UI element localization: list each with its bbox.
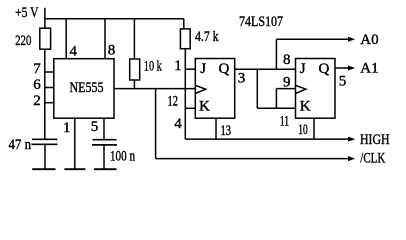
svg-text:10: 10 — [298, 122, 308, 138]
svg-text:74LS107: 74LS107 — [239, 14, 283, 30]
capacitor C1 47n — [32, 139, 58, 144]
wire J1 stub — [185, 68, 195, 70]
svg-text:4: 4 — [70, 43, 78, 59]
arrowhead HIGH — [348, 137, 355, 142]
svg-text:A0: A0 — [360, 32, 378, 48]
svg-text:K: K — [199, 98, 210, 114]
wire Q1 to J2 — [235, 68, 296, 70]
svg-text:1: 1 — [63, 120, 71, 136]
svg-text:1: 1 — [174, 58, 182, 74]
arrowhead A1 — [348, 66, 355, 71]
svg-text:3: 3 — [238, 70, 246, 86]
svg-text:13: 13 — [221, 123, 232, 139]
arrowhead A0 — [348, 37, 355, 42]
wire clock2 line — [276, 88, 295, 90]
svg-text:HIGH: HIGH — [360, 132, 390, 148]
wire 4.7k long vertical to HIGH line — [184, 49, 186, 139]
resistor R2 10k — [130, 59, 140, 80]
svg-text:NE555: NE555 — [70, 80, 104, 96]
svg-text:5: 5 — [339, 74, 347, 90]
svg-text:4.7 k: 4.7 k — [195, 29, 219, 45]
resistor R3 4.7k — [180, 29, 190, 49]
svg-text:Q: Q — [319, 61, 330, 77]
wire pin13 riser — [215, 118, 217, 139]
wire clock2 riser — [275, 89, 277, 109]
svg-text:100 n: 100 n — [110, 148, 135, 164]
+5V terminal — [44, 8, 46, 28]
svg-text:K: K — [300, 98, 311, 114]
svg-text:J: J — [300, 61, 306, 77]
wire 555 pin1 to ground — [74, 118, 76, 169]
wire /CLK riser — [155, 89, 157, 159]
svg-text:+5 V: +5 V — [15, 5, 39, 21]
wire pin10 riser — [313, 118, 315, 139]
wire Q1 downleg — [256, 69, 258, 108]
wire pin7 stub — [45, 71, 54, 73]
svg-text:220: 220 — [15, 33, 31, 49]
flip-flop U2a box — [195, 59, 234, 119]
clock triangle FF1 — [195, 85, 205, 93]
svg-text:J: J — [200, 61, 206, 77]
svg-text:12: 12 — [168, 93, 179, 109]
resistor R2 10k leads — [133, 19, 135, 89]
svg-text:4: 4 — [174, 116, 182, 132]
svg-text:10 k: 10 k — [144, 58, 162, 74]
svg-text:Q: Q — [219, 61, 230, 77]
resistor R3 4.7k lead top — [183, 19, 185, 29]
+5V rail wire — [45, 18, 184, 20]
svg-text:A1: A1 — [360, 61, 378, 77]
wire 100n to ground — [103, 145, 105, 169]
wire left vertical (220 to cap, pins 7/6/2) — [44, 49, 46, 139]
ground (47n) — [32, 168, 55, 170]
wire pin6 stub — [45, 87, 54, 89]
wire 555 pin5 riser — [103, 118, 105, 140]
svg-text:11: 11 — [280, 113, 290, 129]
wire A0 riser — [275, 39, 277, 69]
wire pin4 riser — [65, 19, 67, 59]
wire A0 line — [276, 38, 348, 40]
svg-text:/CLK: /CLK — [360, 150, 385, 166]
wire K1 stub — [185, 107, 195, 109]
svg-text:47 n: 47 n — [9, 137, 32, 153]
wire K2 line — [257, 107, 295, 109]
arrowhead /CLK — [348, 156, 355, 161]
clock triangle FF2 — [296, 85, 306, 93]
ground (100n) — [94, 168, 117, 170]
wire pin8 riser — [104, 19, 106, 59]
wire A1 line — [335, 67, 349, 69]
timer U1 NE555 box — [54, 59, 114, 118]
resistor R1 220 — [40, 28, 51, 49]
svg-text:9: 9 — [283, 74, 291, 90]
capacitor C2 100n — [92, 140, 117, 145]
svg-text:6: 6 — [33, 77, 41, 93]
svg-text:7: 7 — [33, 61, 41, 77]
wire 47n to ground — [44, 144, 46, 169]
ground (pin1) — [64, 168, 85, 170]
flip-flop U2b box — [296, 59, 336, 119]
wire pin2 stub — [45, 102, 54, 104]
svg-text:2: 2 — [33, 93, 41, 109]
wire 555 output to FF1 clock — [114, 88, 195, 90]
svg-text:8: 8 — [108, 43, 116, 59]
svg-text:8: 8 — [283, 52, 291, 68]
wire /CLK line — [156, 158, 349, 160]
svg-text:5: 5 — [91, 119, 99, 135]
wire HIGH line — [185, 138, 348, 140]
